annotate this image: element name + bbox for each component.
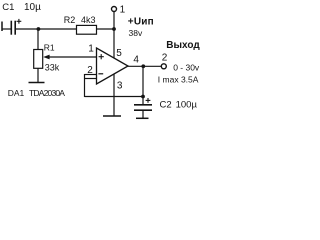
C2 plus sign: [146, 98, 151, 103]
svg-text:10µ: 10µ: [24, 2, 41, 13]
wire pin 3 to ground: [113, 74, 115, 116]
capacitor C2: [134, 97, 152, 119]
svg-text:5: 5: [116, 48, 122, 59]
wire feedback horizontal: [85, 96, 144, 98]
terminal 1 supply: [112, 7, 117, 12]
C1 plus sign: [17, 19, 22, 24]
svg-text:Выход: Выход: [166, 40, 200, 51]
op-amp plus input mark: [99, 54, 104, 59]
feedback C2 junction dot: [141, 95, 145, 99]
capacitor C1: [2, 21, 16, 35]
svg-text:33k: 33k: [45, 63, 60, 73]
wire C1 to R2: [15, 28, 76, 30]
svg-text:R2: R2: [64, 15, 76, 25]
op-amp minus input mark: [98, 73, 103, 75]
svg-text:TDA2030A: TDA2030A: [29, 88, 65, 98]
svg-text:C1: C1: [2, 2, 14, 13]
ground bar under C2: [136, 117, 149, 119]
svg-text:38v: 38v: [129, 28, 143, 38]
output junction dot: [141, 64, 145, 68]
wire R1 wiper to op-amp pin 1: [48, 56, 97, 58]
ground bar under R1: [29, 82, 45, 84]
svg-text:+Uип: +Uип: [128, 16, 154, 27]
wire R1 bottom to ground: [37, 68, 39, 82]
svg-text:1: 1: [120, 4, 126, 15]
svg-text:100µ: 100µ: [176, 99, 198, 110]
svg-text:DA1: DA1: [8, 88, 25, 98]
svg-text:C2: C2: [160, 99, 172, 110]
supply rail junction dot: [112, 27, 116, 31]
wire pin 2 stub: [85, 74, 97, 76]
wire supply rail vertical: [113, 11, 115, 58]
wire feedback vertical left: [84, 74, 86, 97]
op-amp DA1 triangle: [97, 48, 129, 84]
ground bar under pin 3: [103, 115, 121, 117]
svg-text:4k3: 4k3: [81, 15, 96, 25]
svg-text:3: 3: [117, 81, 123, 92]
wire feedback vertical right: [142, 66, 144, 96]
wire pin 2 lower stub: [85, 78, 97, 80]
svg-text:4: 4: [133, 54, 139, 65]
potentiometer R1 body: [34, 50, 43, 69]
svg-text:1: 1: [88, 44, 94, 55]
resistor R2 body: [77, 25, 97, 34]
wire node A to R1: [37, 29, 39, 50]
terminal 2 output: [161, 64, 166, 69]
node A junction dot: [37, 27, 41, 31]
R1 wiper arrow: [43, 55, 49, 60]
wire op-amp output: [128, 65, 162, 67]
svg-text:0 - 30v: 0 - 30v: [173, 63, 200, 73]
svg-text:R1: R1: [44, 42, 55, 52]
wire R2 to supply rail: [97, 28, 115, 30]
svg-text:2: 2: [162, 52, 168, 63]
svg-text:I max 3.5A: I max 3.5A: [158, 74, 199, 84]
